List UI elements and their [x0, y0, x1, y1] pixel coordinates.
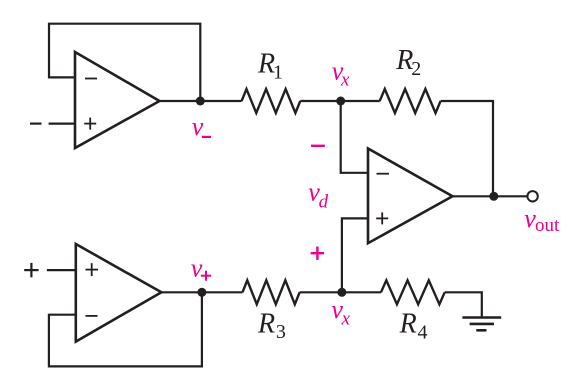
label vd (differential voltage, magenta) — [308, 178, 328, 213]
label plus of vd (magenta) — [311, 247, 324, 260]
wire: node vx down to U3 inverting input — [341, 101, 368, 173]
svg-text:4: 4 — [418, 322, 428, 344]
label minus of vd (magenta) — [311, 145, 325, 147]
node vx bottom (junction dot) — [337, 288, 346, 297]
wire: U1 feedback loop (output to inverting input) — [49, 24, 200, 101]
label vout (output voltage, magenta) — [524, 204, 560, 236]
wire: R1 to node vx — [300, 100, 340, 102]
label vx top (node voltage, magenta) — [332, 57, 350, 91]
wire: R3 to node vx bottom — [300, 291, 342, 293]
svg-text:2: 2 — [411, 58, 421, 80]
wire: U3 output to terminal — [453, 195, 528, 197]
label R4 — [399, 308, 428, 343]
label vx bottom (node voltage, magenta) — [331, 295, 350, 330]
node v+ (junction dot) — [197, 288, 206, 297]
svg-text:3: 3 — [276, 321, 286, 343]
wire: R4 to ground — [445, 292, 482, 316]
input polarity minus (black, far left top) — [30, 122, 42, 124]
wire: U1 output to R1 (top rail) — [160, 100, 242, 102]
op-amp U3 (right difference amp) — [368, 149, 453, 244]
input polarity plus (black, far left bottom) — [24, 263, 38, 277]
resistor R3 — [243, 280, 300, 304]
op-amp U1 (top-left buffer) — [75, 52, 160, 148]
ground — [462, 318, 501, 331]
node vx top (junction dot) — [336, 97, 345, 106]
wire: U1 non-inverting input lead — [49, 122, 75, 124]
svg-text:v: v — [191, 254, 203, 283]
label v+ (node voltage, magenta) — [191, 254, 211, 283]
node U3 output (junction dot) — [489, 192, 498, 201]
svg-text:d: d — [319, 192, 329, 213]
svg-text:R: R — [399, 308, 417, 339]
wire: R2 to U3 output (feedback down right side) — [441, 101, 493, 196]
resistor R2 — [380, 89, 441, 113]
label R3 — [257, 308, 286, 343]
label R2 — [395, 45, 421, 80]
svg-text:out: out — [535, 215, 560, 236]
svg-text:R: R — [257, 308, 275, 339]
svg-text:x: x — [340, 70, 350, 91]
wire: node vx bottom to R4 — [342, 291, 381, 293]
wire: node vx bottom up to U3 non-inverting input — [342, 218, 368, 292]
svg-text:1: 1 — [273, 62, 283, 84]
terminal vout (open circle) — [527, 191, 537, 201]
node v- (junction dot) — [196, 97, 205, 106]
wire: node vx to R2 — [341, 100, 380, 102]
wire: U2 output to R3 (bottom rail) — [161, 291, 242, 293]
label v- (node voltage, magenta) — [192, 112, 211, 141]
svg-text:x: x — [341, 309, 351, 330]
wire: U2 feedback loop (output to inverting input) — [49, 292, 202, 366]
op-amp U2 (bottom-left buffer) — [76, 244, 162, 342]
wire: U2 non-inverting input lead — [47, 269, 76, 271]
resistor R4 — [381, 280, 445, 304]
resistor R1 — [242, 89, 301, 113]
label R1 — [257, 49, 283, 84]
